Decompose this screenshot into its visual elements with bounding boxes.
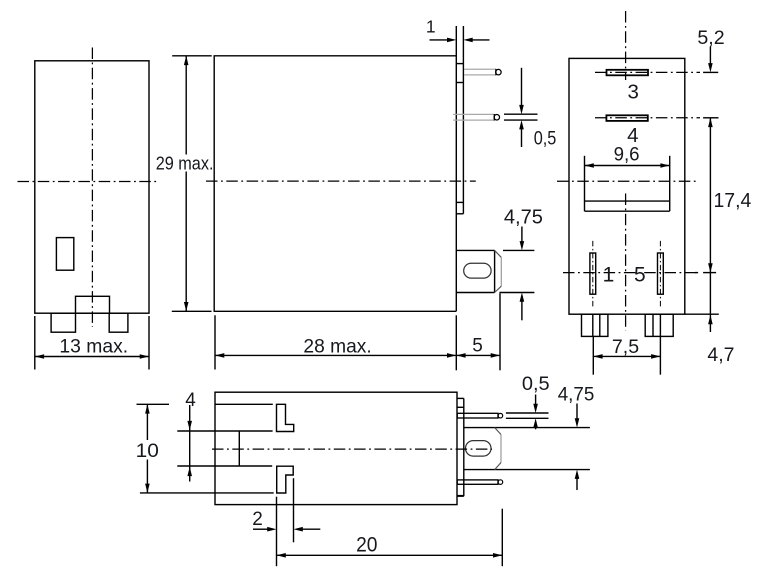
svg-text:4,75: 4,75 <box>504 206 543 228</box>
svg-text:13 max.: 13 max. <box>59 336 128 357</box>
svg-text:7,5: 7,5 <box>612 337 639 358</box>
svg-text:2: 2 <box>252 509 263 530</box>
svg-text:9,6: 9,6 <box>614 145 640 166</box>
svg-text:5: 5 <box>472 336 483 357</box>
svg-text:17,4: 17,4 <box>714 190 752 212</box>
svg-text:4,75: 4,75 <box>558 383 595 405</box>
svg-text:0,5: 0,5 <box>522 374 550 395</box>
svg-text:10: 10 <box>136 440 159 462</box>
svg-text:1: 1 <box>603 263 615 286</box>
svg-text:3: 3 <box>627 81 638 104</box>
svg-text:1: 1 <box>426 17 436 37</box>
svg-text:5: 5 <box>634 263 646 286</box>
svg-text:20: 20 <box>356 533 377 556</box>
svg-text:29 max.: 29 max. <box>156 154 214 174</box>
svg-text:0,5: 0,5 <box>534 129 557 150</box>
svg-text:5,2: 5,2 <box>697 28 724 49</box>
svg-text:4,7: 4,7 <box>707 345 734 366</box>
svg-text:4: 4 <box>185 390 196 411</box>
svg-text:28 max.: 28 max. <box>303 337 371 358</box>
